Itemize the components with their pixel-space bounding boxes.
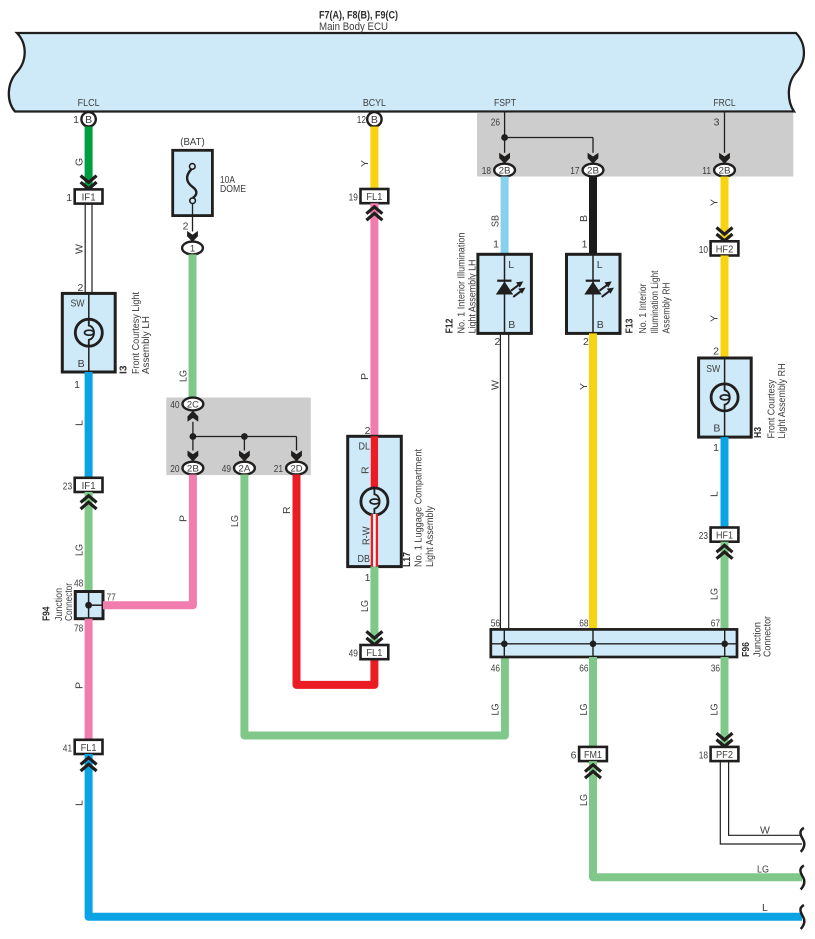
wire from 2C down to node xyxy=(192,422,194,437)
svg-text:Assembly RH: Assembly RH xyxy=(661,283,673,334)
svg-text:3: 3 xyxy=(714,117,720,129)
svg-text:L: L xyxy=(74,800,86,806)
wire G green from FLCL to IF1 xyxy=(85,127,93,190)
svg-text:1: 1 xyxy=(713,442,719,454)
svg-text:Y: Y xyxy=(359,160,371,167)
svg-text:Connector: Connector xyxy=(63,583,75,621)
front courtesy light assembly RH H3 box xyxy=(699,358,752,437)
svg-text:DB: DB xyxy=(358,553,371,565)
svg-text:F96: F96 xyxy=(740,642,752,657)
svg-text:1: 1 xyxy=(493,239,499,251)
svg-text:1: 1 xyxy=(73,114,79,126)
svg-text:2B: 2B xyxy=(587,166,599,177)
svg-text:F13: F13 xyxy=(624,318,636,333)
connector FL1 pin 49 xyxy=(361,645,389,659)
svg-text:48: 48 xyxy=(74,578,83,590)
wire Y yellow from F13 to F96 pin 68 xyxy=(589,333,597,629)
internal wire R red inside L17 xyxy=(371,436,378,489)
wire Y yellow from BCYL to FL1 pin 19 xyxy=(370,127,378,190)
svg-text:B: B xyxy=(713,423,720,435)
chevron arrows out of FL1 pin 19 xyxy=(366,207,382,214)
svg-text:40: 40 xyxy=(170,399,179,411)
wire LG from F96 pin 36 to PF2 xyxy=(721,657,729,747)
junction connector F94 box xyxy=(75,592,103,619)
svg-text:I3: I3 xyxy=(118,365,130,374)
svg-text:L: L xyxy=(508,259,514,271)
svg-text:Light Assembly RH: Light Assembly RH xyxy=(776,364,788,439)
wire P pink from FL1 to luggage light L17 xyxy=(370,203,378,436)
fuse element symbol xyxy=(190,164,196,170)
connector FL1 pin 41 xyxy=(75,740,103,754)
node dot inside F94 xyxy=(85,602,92,609)
wire W white from F12 to F96 pin 56 xyxy=(499,333,501,629)
connector HF1 pin 23 xyxy=(711,528,739,542)
chevron arrows out of IF1 pin 23 xyxy=(81,496,97,503)
svg-text:B: B xyxy=(78,358,85,370)
svg-text:36: 36 xyxy=(711,663,720,675)
svg-text:18: 18 xyxy=(482,165,491,177)
svg-text:49: 49 xyxy=(222,463,231,475)
svg-text:F12: F12 xyxy=(443,318,455,333)
wire down to 2B pin 18 xyxy=(504,138,506,153)
svg-text:67: 67 xyxy=(711,618,720,630)
wire SB from 2B pin 18 to F12 xyxy=(501,177,509,255)
internal wire of I3 xyxy=(88,293,90,319)
svg-text:BCYL: BCYL xyxy=(363,97,386,109)
wire W white from PF2 to right edge xyxy=(720,761,802,844)
wire R red from 2D to FL1 pin 49 xyxy=(297,475,375,685)
junction connector pin 40 2C xyxy=(183,398,204,411)
svg-text:B: B xyxy=(597,319,604,331)
wire LG from 2A to F96 pin 46 xyxy=(244,475,505,736)
svg-text:SW: SW xyxy=(706,363,720,375)
svg-text:1: 1 xyxy=(365,572,371,584)
svg-text:FM1: FM1 xyxy=(584,750,602,761)
svg-text:SW: SW xyxy=(71,297,85,309)
svg-text:20: 20 xyxy=(170,463,179,475)
wire L blue from H3 to HF1 pin 23 xyxy=(721,437,729,527)
junction connector F96 box xyxy=(491,629,737,657)
svg-text:2: 2 xyxy=(713,346,719,358)
svg-text:18: 18 xyxy=(699,750,708,762)
svg-text:1: 1 xyxy=(582,239,588,251)
wire from FSPT pin 26 xyxy=(504,112,506,138)
chevron arrows out of FL1 pin 41 xyxy=(81,758,97,765)
svg-text:LG: LG xyxy=(578,704,590,716)
svg-text:LG: LG xyxy=(757,863,769,875)
svg-text:2D: 2D xyxy=(291,464,303,475)
svg-text:Light Assembly: Light Assembly xyxy=(424,505,436,567)
wire L blue from I3 to IF1 pin 23 xyxy=(85,372,93,478)
wire LG from F96 pin 66 to FM1 xyxy=(589,657,597,747)
svg-text:2: 2 xyxy=(494,336,500,348)
chevron arrows into IF1 pin 1 xyxy=(81,176,97,183)
svg-text:L: L xyxy=(762,902,768,914)
svg-text:LG: LG xyxy=(709,704,721,716)
wire down to 2A arrow xyxy=(243,437,245,451)
svg-text:FLCL: FLCL xyxy=(78,97,100,109)
svg-text:No. 1 Interior: No. 1 Interior xyxy=(637,283,649,333)
fuse DOME box xyxy=(173,150,213,215)
connector FL1 pin 19 xyxy=(361,189,389,203)
node dot F96 pin 67 xyxy=(721,641,728,648)
svg-text:F7(A), F8(B), F9(C): F7(A), F8(B), F9(C) xyxy=(319,10,398,22)
lamp symbol of H3 xyxy=(711,384,738,411)
wire across junction box xyxy=(193,436,297,438)
svg-text:No. 1 Luggage Compartment: No. 1 Luggage Compartment xyxy=(413,449,425,567)
svg-text:Illumination Light: Illumination Light xyxy=(649,270,661,333)
internal wire R-W inside L17 xyxy=(371,514,378,567)
svg-text:21: 21 xyxy=(274,463,283,475)
svg-text:DOME: DOME xyxy=(220,183,246,195)
svg-text:Assembly LH: Assembly LH xyxy=(140,316,152,374)
svg-text:LG: LG xyxy=(359,600,371,612)
LED symbol of F12 xyxy=(497,280,511,282)
node dot below 2C xyxy=(190,433,197,440)
svg-text:2B: 2B xyxy=(719,166,731,177)
svg-text:IF1: IF1 xyxy=(82,193,96,204)
chevron arrows into HF2 pin 10 xyxy=(717,228,733,235)
svg-text:B: B xyxy=(85,114,92,126)
svg-text:No. 1 Interior Illumination: No. 1 Interior Illumination xyxy=(455,232,467,333)
svg-text:19: 19 xyxy=(349,192,358,204)
svg-text:2A: 2A xyxy=(238,464,251,475)
chevron arrows out of FM1 xyxy=(585,765,601,772)
svg-text:Main Body ECU: Main Body ECU xyxy=(319,21,388,33)
wire from FRCL pin 3 xyxy=(724,112,726,153)
svg-text:68: 68 xyxy=(579,618,588,630)
svg-text:R-W: R-W xyxy=(361,526,373,545)
svg-text:23: 23 xyxy=(699,530,708,542)
svg-text:W: W xyxy=(760,825,770,837)
wire LG from IF1 to junction F94 xyxy=(85,492,93,592)
svg-text:P: P xyxy=(177,515,189,522)
svg-text:DL: DL xyxy=(359,441,371,453)
svg-text:2C: 2C xyxy=(187,399,199,410)
svg-text:26: 26 xyxy=(491,117,500,129)
svg-text:66: 66 xyxy=(579,663,588,675)
wire down to 2D arrow xyxy=(296,437,298,451)
svg-text:6: 6 xyxy=(571,750,577,762)
svg-text:HF1: HF1 xyxy=(716,531,733,542)
svg-text:Y: Y xyxy=(709,199,721,206)
svg-text:B: B xyxy=(508,319,515,331)
svg-text:FSPT: FSPT xyxy=(494,97,516,109)
svg-text:11: 11 xyxy=(702,165,711,177)
wire break symbol on LG xyxy=(800,866,804,890)
connector HF2 pin 10 xyxy=(711,241,739,255)
svg-text:1: 1 xyxy=(74,379,80,391)
lamp symbol of I3 xyxy=(75,319,102,346)
wire W white from IF1 to I3 switch xyxy=(84,204,86,294)
Main Body ECU block F7/F8/F9 xyxy=(9,33,804,112)
wire break symbol on W xyxy=(800,828,804,852)
wire branch to 2B pin 17 xyxy=(505,137,593,139)
connector FM1 pin 6 xyxy=(579,747,607,761)
svg-text:HF2: HF2 xyxy=(716,245,734,256)
svg-text:F94: F94 xyxy=(41,606,53,621)
svg-text:L: L xyxy=(74,420,86,426)
node junction dot on FSPT wire xyxy=(501,134,508,141)
shielded gray junction area middle left xyxy=(166,398,310,476)
svg-text:12: 12 xyxy=(357,114,366,126)
wire Y yellow from 2B pin 11 to HF2 xyxy=(721,177,729,242)
svg-text:49: 49 xyxy=(349,648,358,660)
arrow into junction 2B pin 17 xyxy=(588,153,599,164)
chevron arrows out of HF1 pin 23 xyxy=(717,545,733,552)
chevron arrows into FL1 pin 49 xyxy=(366,631,382,638)
svg-text:56: 56 xyxy=(491,618,500,630)
connector ellipse 1 xyxy=(182,242,203,255)
shielded harness gray area top right xyxy=(477,113,793,177)
connector IF1 pin 23 xyxy=(75,478,103,492)
arrow into junction 2B pin 11 xyxy=(719,153,730,164)
svg-text:L: L xyxy=(709,491,721,497)
svg-text:FL1: FL1 xyxy=(81,743,97,754)
svg-text:B: B xyxy=(371,114,378,126)
svg-text:G: G xyxy=(74,158,86,166)
svg-text:R: R xyxy=(360,466,372,474)
svg-text:FL1: FL1 xyxy=(366,192,382,203)
svg-text:(BAT): (BAT) xyxy=(180,136,205,148)
svg-text:R: R xyxy=(281,506,293,514)
svg-text:P: P xyxy=(359,373,371,380)
connector IF1 pin 1 xyxy=(75,189,103,203)
svg-text:LG: LG xyxy=(578,794,590,806)
wire P pink from 2B to F94 pin 77 xyxy=(103,475,193,606)
svg-text:W: W xyxy=(74,244,86,254)
chevron arrows into PF2 pin 18 xyxy=(717,733,733,740)
svg-text:10: 10 xyxy=(699,244,708,256)
svg-text:2: 2 xyxy=(183,220,189,232)
svg-text:LG: LG xyxy=(74,544,86,556)
svg-text:PF2: PF2 xyxy=(716,750,733,761)
svg-text:B: B xyxy=(578,215,590,222)
lamp symbol of L17 xyxy=(361,488,388,515)
wire LG from fuse to junction 2C xyxy=(189,254,197,398)
svg-text:2B: 2B xyxy=(499,166,511,177)
wire from fuse pin 2 xyxy=(192,203,194,231)
svg-text:1: 1 xyxy=(66,192,72,204)
arrow up into 2C xyxy=(188,411,199,422)
wire B black from 2B pin 17 to F13 xyxy=(589,177,597,255)
wire P pink from F94 to FL1 pin 41 xyxy=(85,619,93,740)
wire Y yellow from HF2 to H3 xyxy=(721,256,729,359)
node dot F96 pin 68 xyxy=(590,641,597,648)
svg-text:17: 17 xyxy=(570,165,579,177)
svg-text:L17: L17 xyxy=(401,552,413,567)
svg-text:41: 41 xyxy=(63,742,72,754)
LED symbol of F13 xyxy=(586,280,600,282)
connector PF2 pin 18 xyxy=(711,747,739,761)
luggage compartment light L17 box xyxy=(348,436,402,566)
svg-text:FRCL: FRCL xyxy=(714,97,736,109)
front courtesy light assembly LH I3 box xyxy=(62,293,115,372)
svg-text:Y: Y xyxy=(709,315,721,322)
svg-text:Light Assembly LH: Light Assembly LH xyxy=(467,260,479,334)
svg-text:SB: SB xyxy=(489,215,501,227)
svg-text:Connector: Connector xyxy=(761,616,773,657)
svg-text:LG: LG xyxy=(177,370,189,382)
svg-text:Y: Y xyxy=(578,383,590,390)
wire LG from FM1 to right edge xyxy=(593,761,802,877)
wire break symbol on L xyxy=(800,905,804,929)
arrow into junction 2B pin 18 xyxy=(499,153,510,164)
svg-text:23: 23 xyxy=(63,480,72,492)
svg-text:46: 46 xyxy=(491,663,500,675)
wire L blue from FL1 to bottom right xyxy=(89,754,802,917)
wire LG from HF1 to F96 pin 67 xyxy=(721,542,729,630)
svg-text:78: 78 xyxy=(74,622,83,634)
svg-text:P: P xyxy=(74,682,86,689)
interior illumination light F12 box xyxy=(478,254,532,333)
arrow into connector 1 xyxy=(187,231,198,242)
svg-text:2B: 2B xyxy=(187,464,199,475)
svg-text:LG: LG xyxy=(490,704,502,716)
svg-text:2: 2 xyxy=(583,336,589,348)
svg-text:LG: LG xyxy=(709,588,721,600)
svg-text:FL1: FL1 xyxy=(366,648,382,659)
svg-text:LG: LG xyxy=(229,515,241,527)
svg-text:IF1: IF1 xyxy=(82,481,96,492)
node dot above 2A xyxy=(241,433,248,440)
wire LG from L17 to FL1 pin 49 xyxy=(370,567,378,645)
svg-text:1: 1 xyxy=(190,243,195,254)
node dot F96 pin 56 xyxy=(501,641,508,648)
svg-text:L: L xyxy=(597,259,603,271)
interior illumination light F13 box xyxy=(567,254,621,333)
svg-text:H3: H3 xyxy=(752,427,764,438)
wire down to 2B arrow xyxy=(192,437,194,451)
svg-text:W: W xyxy=(490,380,502,390)
